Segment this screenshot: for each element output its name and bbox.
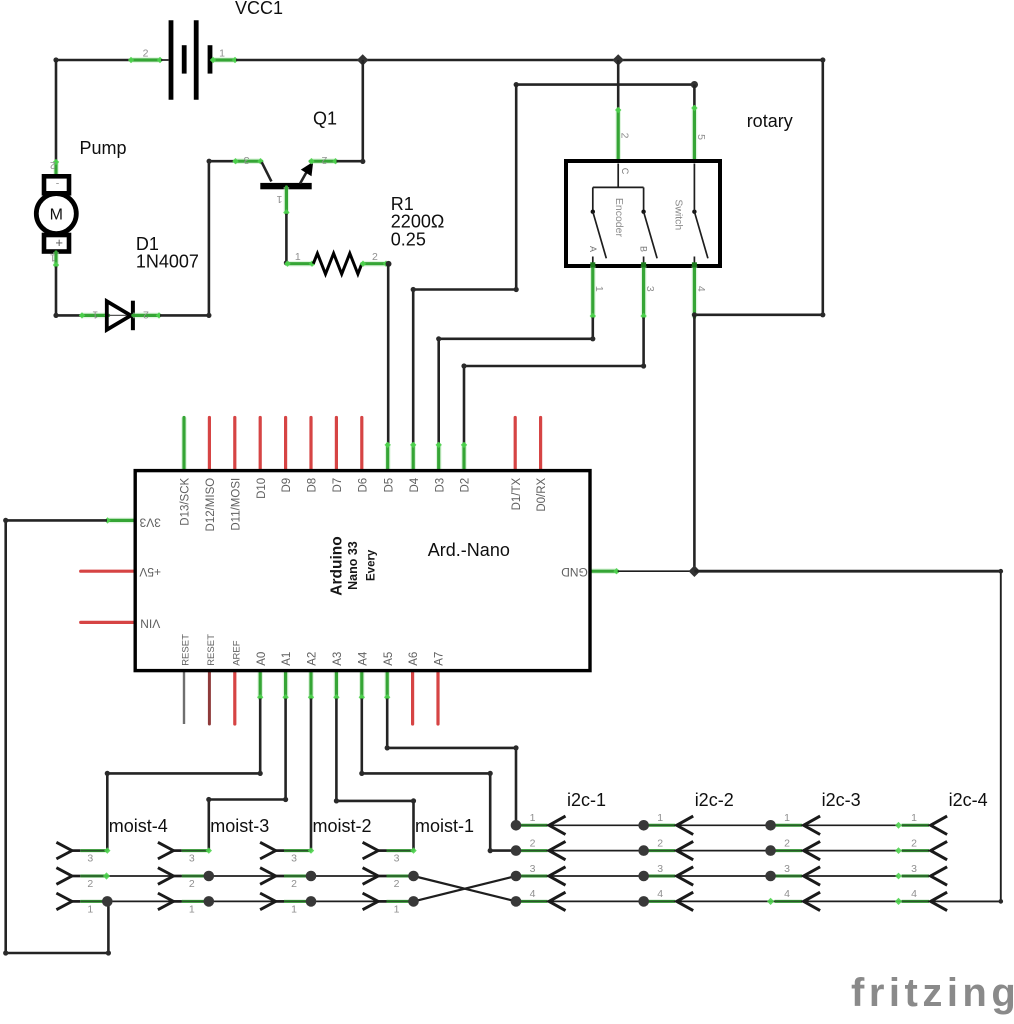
wire crossover moist-1 pin2 to i2c pin4	[414, 876, 517, 901]
wire crossover moist-1 pin1 to i2c pin3	[414, 876, 517, 901]
svg-text:A2: A2	[307, 652, 319, 666]
node junction moist-1 pin1	[408, 896, 419, 907]
svg-text:3V3: 3V3	[139, 515, 161, 529]
svg-text:D4: D4	[409, 477, 421, 492]
svg-text:Every: Every	[366, 549, 378, 581]
connector moist-1 (3-pin female)	[363, 842, 414, 909]
svg-text:D12/MISO: D12/MISO	[205, 478, 217, 532]
label diode pin 2	[143, 308, 149, 320]
connector i2c-3 (4-pin female)	[775, 816, 821, 911]
rotary pin B stub	[643, 257, 645, 264]
label R1	[391, 194, 445, 249]
wire diode pin1 leg (green)	[79, 312, 110, 318]
label Nano 33	[346, 541, 360, 590]
labels Arduino top pin names	[180, 477, 549, 531]
wire emitter down to resistor	[284, 214, 289, 266]
wire A5 to i2c bus row1	[385, 699, 519, 826]
svg-text:0.25: 0.25	[391, 229, 426, 249]
label Encoder	[613, 198, 625, 238]
svg-text:1: 1	[219, 48, 225, 60]
node moist pin3 green ends	[104, 847, 417, 853]
motor M1 (pump) terminal - box	[44, 176, 69, 193]
label pump pin 1	[50, 252, 56, 264]
connector moist-4 (3-pin female)	[56, 842, 107, 909]
label battery pin 2	[143, 48, 149, 60]
node i2c-4 green wire ends	[895, 822, 902, 905]
resistor R1 zigzag	[313, 253, 362, 274]
svg-text:4: 4	[657, 888, 663, 900]
wire diode to transistor base	[160, 159, 234, 318]
node junctions i2c-3 rows	[765, 820, 776, 881]
svg-text:1: 1	[87, 903, 93, 915]
svg-text:Q1: Q1	[313, 109, 337, 129]
wire battery pin2 leg (green)	[128, 57, 163, 63]
label Pump	[80, 138, 127, 158]
svg-text:3: 3	[291, 853, 297, 865]
node resistor output elbow	[386, 261, 392, 267]
rotary encoder U1 box	[566, 161, 720, 266]
wire battery pin1 leg (green)	[210, 57, 238, 63]
svg-text:VCC1: VCC1	[235, 0, 283, 18]
label resistor pin 1	[295, 251, 301, 263]
svg-text:A1: A1	[281, 652, 293, 666]
svg-text:1: 1	[394, 903, 400, 915]
wire rotary pin5 leg (green)	[691, 105, 697, 164]
wire top rail left segment (battery pin2 to pump branch)	[53, 57, 131, 62]
motor M1 (pump) terminal + box	[44, 235, 69, 252]
wire rotary pin5 horizontal (from D4 riser)	[514, 82, 695, 87]
svg-text:i2c-2: i2c-2	[695, 790, 734, 810]
svg-text:Ard.-Nano: Ard.-Nano	[428, 540, 510, 560]
svg-text:i2c-1: i2c-1	[567, 790, 606, 810]
wire i2c bus row2 (SCL)	[516, 850, 898, 852]
svg-text:A6: A6	[408, 652, 420, 666]
label rotary pin 1	[593, 286, 605, 292]
svg-text:RESET: RESET	[181, 634, 192, 666]
svg-text:B: B	[639, 246, 649, 252]
node i2c-3 pin4 wire end (green)	[767, 898, 774, 905]
svg-text:GND: GND	[561, 565, 588, 579]
svg-text:3: 3	[189, 853, 195, 865]
node junction moist-3 pin2	[204, 871, 215, 882]
svg-text:D13/SCK: D13/SCK	[180, 477, 192, 525]
wire 3V3 to moisture bus (left side loop)	[3, 518, 111, 956]
label moist-1	[415, 816, 474, 836]
wire pump pin2 leg (green)	[53, 159, 59, 175]
label moist-2	[313, 816, 372, 836]
svg-text:2: 2	[530, 837, 536, 849]
node junction J2 (rotary pin2 tap on top rail)	[612, 54, 624, 66]
svg-text:2: 2	[189, 878, 195, 890]
node junction moist-1 pin2	[408, 871, 419, 882]
svg-text:Nano 33: Nano 33	[346, 541, 360, 590]
svg-text:1N4007: 1N4007	[136, 252, 199, 272]
wire rotary loop right side (top rail to pin4)	[692, 57, 826, 317]
svg-text:1: 1	[50, 252, 56, 264]
svg-text:C: C	[620, 168, 630, 175]
label motor plus	[55, 235, 63, 250]
connector moist-3 (3-pin female)	[158, 842, 209, 909]
svg-text:D7: D7	[332, 478, 344, 493]
svg-text:3: 3	[394, 853, 400, 865]
svg-text:D1/TX: D1/TX	[511, 477, 523, 510]
svg-text:rotary: rotary	[747, 111, 793, 131]
connector i2c-2 (4-pin female)	[648, 816, 694, 911]
svg-text:A0: A0	[256, 652, 268, 666]
label moist-3	[210, 816, 269, 836]
svg-text:2: 2	[394, 878, 400, 890]
svg-text:RESET: RESET	[206, 634, 217, 666]
svg-text:i2c-3: i2c-3	[822, 790, 861, 810]
svg-text:D3: D3	[434, 478, 446, 493]
battery VCC1	[161, 20, 210, 99]
svg-text:1: 1	[530, 812, 536, 824]
svg-text:+: +	[55, 235, 63, 250]
wire rotary pin2 from top rail	[617, 60, 620, 109]
svg-text:2: 2	[372, 251, 378, 263]
svg-text:4: 4	[911, 888, 917, 900]
node junction moist-4 pin1	[102, 896, 113, 907]
svg-text:5: 5	[695, 134, 707, 140]
svg-text:1: 1	[92, 308, 98, 320]
wire rotary pin2 leg (green)	[615, 107, 621, 164]
svg-text:moist-3: moist-3	[210, 816, 269, 836]
wire i2c bus row4 (GND)	[516, 900, 941, 902]
label transistor pin 3	[244, 154, 250, 166]
wire GND to right side loop	[694, 569, 1003, 904]
wire A3 to moist-1 pin3	[334, 699, 416, 851]
Arduino bottom pin legs	[184, 671, 438, 724]
wire rotary pin1 leg (green)	[590, 262, 596, 319]
connector moist-2 (3-pin female)	[260, 842, 311, 909]
svg-text:2: 2	[143, 308, 149, 320]
labels moist-2 pin numbers	[291, 853, 297, 916]
svg-text:A3: A3	[332, 652, 344, 666]
svg-text:2: 2	[291, 878, 297, 890]
svg-text:3: 3	[657, 863, 663, 875]
connector i2c-4 (4-pin female)	[902, 816, 948, 911]
label encoder A	[588, 246, 598, 252]
diode D1 symbol	[107, 301, 133, 331]
svg-text:D2: D2	[460, 478, 472, 493]
svg-text:1: 1	[276, 193, 282, 205]
wire A2 to moist-2 pin3	[310, 699, 313, 851]
svg-text:4: 4	[695, 286, 707, 292]
motor M1 (pump) body circle	[36, 194, 76, 234]
svg-text:fritzing: fritzing	[851, 971, 1014, 1015]
labels i2c-4 pin numbers	[911, 812, 917, 900]
node junction GND	[689, 565, 701, 577]
label rotary pin 3	[644, 286, 656, 292]
labels moist-1 pin numbers	[394, 853, 400, 916]
label moist-4	[109, 816, 168, 836]
label Arduino	[329, 536, 346, 595]
node rotary pin5 wire end	[691, 81, 698, 88]
labels i2c-1 pin numbers	[530, 812, 536, 900]
label rotary pin 4	[695, 286, 707, 292]
labels moist-3 pin numbers	[189, 853, 195, 916]
wire rotary pin4 leg (green)	[692, 262, 697, 317]
svg-text:3: 3	[644, 286, 656, 292]
label transistor pin 2	[321, 154, 327, 166]
labels i2c-3 pin numbers	[784, 812, 790, 900]
wire +5V pin leg (red, unconnected)	[81, 570, 136, 573]
node junction moist-3 pin1	[204, 896, 215, 907]
wire A4 to i2c bus row2	[359, 699, 516, 854]
wire 3V3 leg (green)	[104, 517, 135, 523]
label i2c-1	[567, 790, 606, 810]
label rotary pin 2	[619, 133, 631, 139]
svg-text:D10: D10	[256, 478, 268, 499]
fritzing watermark	[851, 971, 1014, 1015]
wire VIN pin leg (red, unconnected)	[81, 621, 136, 624]
svg-text:Switch: Switch	[673, 199, 685, 230]
label rotary pin 5	[695, 134, 707, 140]
wire resistor pin2 leg (green)	[360, 261, 389, 267]
svg-text:AREF: AREF	[231, 640, 242, 666]
svg-text:+5V: +5V	[139, 565, 161, 579]
rotary switch arm	[694, 212, 708, 259]
svg-text:moist-4: moist-4	[109, 816, 168, 836]
label rotary	[747, 111, 793, 131]
svg-text:2: 2	[50, 159, 56, 171]
label Ard.-Nano	[428, 540, 510, 560]
label Q1	[313, 109, 337, 129]
op-amp? no - Arduino U2 (Ard.-Nano) body box	[135, 471, 590, 671]
svg-text:2: 2	[87, 878, 93, 890]
labels Arduino bottom pin names	[181, 634, 446, 666]
svg-text:2: 2	[784, 837, 790, 849]
rotary pin A stub	[592, 257, 594, 264]
labels i2c-2 pin numbers	[657, 812, 663, 900]
svg-text:A4: A4	[357, 651, 369, 666]
svg-text:D8: D8	[307, 478, 319, 493]
node junctions i2c-2 rows	[638, 820, 649, 907]
label VIN	[140, 617, 160, 631]
transistor Q1 symbol	[260, 162, 313, 189]
label Every	[366, 549, 378, 581]
wire bus row2 (moist pin2 net)	[106, 875, 414, 877]
label encoder C	[620, 168, 630, 175]
label resistor pin 2	[372, 251, 378, 263]
label encoder B	[639, 246, 649, 252]
wire i2c bus row1 (SDA)	[516, 824, 898, 826]
svg-text:1: 1	[291, 903, 297, 915]
label pump pin 2	[50, 159, 56, 171]
svg-text:-: -	[56, 178, 60, 190]
svg-text:2: 2	[911, 837, 917, 849]
label transistor pin 1	[276, 193, 282, 205]
rotary encoder arm A	[593, 212, 607, 259]
label motor M	[50, 207, 63, 224]
svg-text:D9: D9	[281, 478, 293, 493]
wire bus row1 (moist pin1 / 3V3 net)	[107, 900, 413, 902]
wire pump pin2 riser	[55, 60, 58, 161]
label battery pin 1	[219, 48, 225, 60]
svg-text:M: M	[50, 207, 63, 224]
wire rotary pin3 leg (green)	[640, 262, 646, 319]
wire rotary pin1 to Arduino D3	[436, 318, 595, 445]
svg-text:A5: A5	[383, 652, 395, 666]
label motor minus	[56, 178, 60, 190]
svg-text:1: 1	[657, 812, 663, 824]
svg-text:1: 1	[189, 903, 195, 915]
svg-text:1: 1	[911, 812, 917, 824]
wire i2c bus row3 (3V3)	[516, 875, 898, 877]
svg-text:A7: A7	[434, 652, 446, 666]
label GND	[561, 565, 588, 579]
svg-text:4: 4	[784, 888, 790, 900]
svg-text:1: 1	[295, 251, 301, 263]
node junction moist-2 pin2	[306, 871, 317, 882]
wire diode pin2 leg (green)	[133, 312, 162, 318]
label i2c-3	[822, 790, 861, 810]
svg-text:VIN: VIN	[140, 617, 160, 631]
rotary pin4 stub	[693, 257, 695, 264]
wire transistor pin3 leg (green)	[232, 158, 263, 164]
label diode pin 1	[92, 308, 98, 320]
label D1	[136, 234, 199, 272]
svg-text:4: 4	[530, 888, 536, 900]
rotary encoder contact dots	[591, 210, 697, 214]
svg-text:i2c-4: i2c-4	[949, 790, 988, 810]
node moist-4 pin2 wire end (green)	[103, 872, 110, 879]
Arduino top pin legs	[184, 418, 541, 471]
svg-text:D0/RX: D0/RX	[536, 477, 548, 511]
wire rotary pin3 to Arduino D2	[461, 318, 646, 445]
wire rotary pin5 stub	[693, 85, 696, 107]
svg-text:moist-2: moist-2	[313, 816, 372, 836]
svg-text:D11/MOSI: D11/MOSI	[230, 478, 242, 531]
connector i2c-1 (4-pin female)	[520, 816, 566, 911]
node junction J1 (collector tap on top rail)	[357, 54, 369, 66]
node junctions i2c-1 rows	[511, 820, 522, 907]
labels moist-4 pin numbers	[87, 853, 93, 916]
wire rotary pin4 to GND junction	[693, 315, 696, 571]
rotary encoder common C line	[593, 164, 644, 212]
svg-text:3: 3	[530, 863, 536, 875]
wire resistor to Arduino D5	[387, 264, 390, 445]
label Switch	[673, 199, 685, 230]
wire pump to diode segment	[53, 267, 81, 319]
svg-text:2: 2	[619, 133, 631, 139]
wire collector to top rail	[337, 60, 366, 164]
label VCC1	[235, 0, 283, 18]
label 3V3	[139, 515, 161, 529]
svg-text:A: A	[588, 246, 598, 252]
svg-text:Arduino: Arduino	[329, 536, 346, 595]
label i2c-2	[695, 790, 734, 810]
svg-text:Encoder: Encoder	[613, 198, 625, 238]
svg-text:2: 2	[143, 48, 149, 60]
rotary encoder arm B	[644, 212, 658, 259]
svg-text:D5: D5	[383, 478, 395, 493]
wire transistor pin1 leg (green)	[283, 187, 289, 216]
wire GND thin segment	[618, 570, 695, 572]
wire GND leg (green)	[590, 568, 620, 574]
svg-text:2: 2	[321, 154, 327, 166]
node junction moist-2 pin1	[306, 896, 317, 907]
wire top rail (battery pin1 to rotary top-right corner)	[236, 59, 823, 62]
svg-text:3: 3	[87, 853, 93, 865]
svg-text:1: 1	[593, 286, 605, 292]
wire pump pin1 leg (green)	[53, 252, 59, 268]
svg-text:3: 3	[911, 863, 917, 875]
svg-text:Pump: Pump	[80, 138, 127, 158]
svg-text:3: 3	[244, 154, 250, 166]
svg-text:moist-1: moist-1	[415, 816, 474, 836]
wire resistor pin1 leg (green)	[284, 261, 315, 267]
wire rotary pin5 to Arduino D4	[411, 85, 519, 445]
label +5V	[139, 565, 161, 579]
label i2c-4	[949, 790, 988, 810]
wire A1 to moist-3 pin3	[206, 699, 288, 851]
svg-text:1: 1	[784, 812, 790, 824]
svg-text:D6: D6	[357, 478, 369, 493]
svg-text:2: 2	[657, 837, 663, 849]
wire transistor pin2 leg (green)	[308, 158, 338, 164]
rotary switch line	[693, 164, 695, 212]
wire A0 to moist-4 pin3	[105, 699, 263, 851]
svg-text:3: 3	[784, 863, 790, 875]
